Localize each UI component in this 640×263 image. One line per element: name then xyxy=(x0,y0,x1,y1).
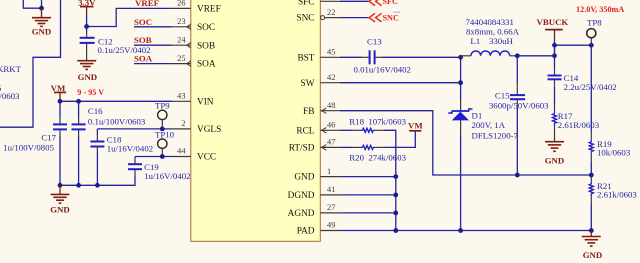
capacitor C14 xyxy=(548,45,562,103)
svg-text:SOA: SOA xyxy=(134,54,153,64)
wire 3.3V stem to junction xyxy=(86,16,88,27)
svg-text:D1: D1 xyxy=(472,110,483,120)
svg-text:C17: C17 xyxy=(41,133,56,143)
junction C17/GND xyxy=(58,183,63,188)
power port VM (left) xyxy=(51,83,67,101)
wire SNC stub xyxy=(340,17,369,19)
junction TP9 on VGLS xyxy=(160,126,165,131)
svg-text:TP9: TP9 xyxy=(155,100,170,110)
pin SFC 4 (right, cut at top) xyxy=(298,0,340,7)
svg-text:VREF: VREF xyxy=(135,0,159,8)
junction TP8 xyxy=(589,43,594,48)
svg-text:12.0V, 350mA: 12.0V, 350mA xyxy=(576,5,624,14)
svg-text:VIN: VIN xyxy=(197,97,214,107)
pin BST 45 (right) xyxy=(297,48,339,64)
svg-text:R18 107k/0603: R18 107k/0603 xyxy=(349,117,406,127)
wire SOB stub xyxy=(134,44,172,46)
junction D1 anode xyxy=(458,228,463,233)
junction R19/R21 xyxy=(589,173,594,178)
svg-text:VBUCK: VBUCK xyxy=(537,17,569,27)
svg-text:47: 47 xyxy=(327,138,335,147)
pin SOC 23 (left) xyxy=(172,17,216,33)
svg-text:BST: BST xyxy=(297,53,314,63)
ground GND under cap bank xyxy=(50,185,70,214)
ground GND under C12 xyxy=(77,61,97,82)
svg-text:GND: GND xyxy=(78,72,98,82)
svg-text:2.2u/25V/0402: 2.2u/25V/0402 xyxy=(564,82,617,92)
resistor R19 xyxy=(589,132,593,175)
svg-text:25: 25 xyxy=(177,54,185,63)
svg-text:44: 44 xyxy=(177,147,186,156)
junction VBUCK column xyxy=(552,53,557,58)
svg-text:FB: FB xyxy=(303,107,314,117)
svg-text:SNC: SNC xyxy=(296,14,314,24)
capacitor C15 xyxy=(510,56,525,175)
junction R21 bottom xyxy=(589,228,594,233)
svg-text:RCL: RCL xyxy=(296,126,314,136)
svg-text:C13: C13 xyxy=(367,37,382,47)
junction C15 top xyxy=(515,53,520,58)
svg-text:SW: SW xyxy=(301,79,315,89)
svg-text:SFC: SFC xyxy=(298,0,315,7)
junction TP10 on VCC xyxy=(160,154,165,159)
junction DGND/bus xyxy=(393,193,398,198)
wire R18 to GND bus xyxy=(384,130,396,176)
port SFC (cut at top) xyxy=(369,0,398,6)
svg-text:VM: VM xyxy=(408,120,423,130)
svg-text:DFLS1200-7: DFLS1200-7 xyxy=(472,131,519,141)
capacitor C18 xyxy=(90,129,104,185)
junction PAD/bus xyxy=(393,228,398,233)
pin SNC 22 (right) xyxy=(296,8,339,24)
svg-text:SOA: SOA xyxy=(197,60,216,70)
svg-text:48: 48 xyxy=(327,101,335,110)
test point TP9 xyxy=(155,100,170,129)
svg-text:KRKT: KRKT xyxy=(0,64,22,74)
svg-text:3600p/50V/0603: 3600p/50V/0603 xyxy=(489,100,549,110)
svg-text:SFC: SFC xyxy=(383,0,399,6)
pin SOB 24 (left) xyxy=(172,35,216,51)
junction AGND/bus xyxy=(393,211,398,216)
svg-text:49: 49 xyxy=(327,221,335,230)
junction top-left xyxy=(39,6,44,11)
svg-text:1u/100V/0805: 1u/100V/0805 xyxy=(3,143,54,153)
wire SW pin to node xyxy=(340,82,461,84)
svg-text:RT/SD: RT/SD xyxy=(289,144,315,154)
svg-text:74404084331: 74404084331 xyxy=(466,17,514,27)
wire C13 to SW node column xyxy=(375,56,382,58)
svg-text:GND: GND xyxy=(583,250,603,260)
wire L1 to VBUCK column xyxy=(517,55,554,57)
pin GND 1 (right) xyxy=(294,167,339,183)
ground GND under R17 xyxy=(545,142,565,166)
svg-text:42: 42 xyxy=(327,73,335,82)
junction VM/C17 xyxy=(58,99,63,104)
IC body xyxy=(191,0,320,241)
test point TP8 xyxy=(587,17,603,45)
wire PAD row to bottom GND xyxy=(340,230,592,232)
svg-text:0.1u/100V/0603: 0.1u/100V/0603 xyxy=(88,116,146,126)
pin VGLS 2 (left) xyxy=(172,119,222,135)
wire SFC stub xyxy=(340,0,369,2)
junction C16 xyxy=(76,99,81,104)
svg-text:DGND: DGND xyxy=(288,191,315,201)
svg-text:23: 23 xyxy=(177,17,185,26)
svg-text:46: 46 xyxy=(327,121,335,130)
pin RT/SD 47 (right) xyxy=(289,138,340,154)
svg-text:VCC: VCC xyxy=(197,153,216,163)
wire SOA stub xyxy=(134,63,172,65)
svg-text:24: 24 xyxy=(177,35,186,44)
svg-text:VM: VM xyxy=(51,83,66,93)
svg-text:R20 274k/0603: R20 274k/0603 xyxy=(349,152,406,162)
wire VGLS row xyxy=(97,128,171,130)
svg-text:10k/0603: 10k/0603 xyxy=(597,147,631,157)
svg-text:VGLS: VGLS xyxy=(197,125,221,135)
pin SW 42 (right) xyxy=(301,73,340,89)
svg-text:SOB: SOB xyxy=(197,41,215,51)
svg-text:SOC: SOC xyxy=(134,17,152,27)
junction GND pin/bus xyxy=(393,174,398,179)
pin PAD 49 (right) xyxy=(297,221,340,237)
svg-text:TP10: TP10 xyxy=(155,130,175,140)
resistor R18 xyxy=(353,128,384,132)
wire GND bus vertical xyxy=(395,177,397,231)
svg-text:43: 43 xyxy=(177,92,185,101)
svg-text:GND: GND xyxy=(32,27,52,37)
svg-text:AGND: AGND xyxy=(288,209,315,219)
svg-text:2: 2 xyxy=(181,119,185,128)
capacitor C12 xyxy=(80,27,95,61)
svg-text:1u/16V/0402: 1u/16V/0402 xyxy=(144,171,190,181)
svg-text:PAD: PAD xyxy=(297,227,315,237)
svg-text:1: 1 xyxy=(327,167,331,176)
diode D1 (schottky DFLS1200-7) xyxy=(448,101,472,231)
wire GND pin row xyxy=(340,176,396,178)
svg-text:0.01u/16V/0402: 0.01u/16V/0402 xyxy=(354,64,411,74)
junction 3.3V node xyxy=(84,24,89,29)
wire DGND row xyxy=(340,194,396,196)
pin DGND 41 (right) xyxy=(288,185,340,201)
pin VCC 44 (left) xyxy=(172,147,217,163)
power port VBUCK xyxy=(537,17,569,40)
wire AGND row xyxy=(340,212,396,214)
wire SOC stub xyxy=(134,26,172,28)
svg-text:SNC: SNC xyxy=(383,14,399,23)
wire RCL to R18 xyxy=(340,129,353,131)
junction C18/GND row xyxy=(95,183,100,188)
power port 3.3V xyxy=(78,0,96,16)
svg-text:41: 41 xyxy=(327,185,335,194)
svg-text:8x8mm, 0.66A: 8x8mm, 0.66A xyxy=(466,27,520,37)
svg-text:9 - 95 V: 9 - 95 V xyxy=(77,88,104,97)
svg-text:L1 330uH: L1 330uH xyxy=(470,36,513,46)
wire R20 to VM xyxy=(384,132,416,148)
junction SW/BST xyxy=(458,55,463,60)
svg-text:45: 45 xyxy=(327,48,335,57)
ground GND bottom right xyxy=(582,231,602,260)
svg-text:26: 26 xyxy=(177,0,185,8)
capacitor C17 xyxy=(53,101,67,185)
svg-text:C15: C15 xyxy=(495,90,510,100)
svg-text:SOB: SOB xyxy=(134,35,152,45)
wire top-left to GND junction xyxy=(23,0,41,8)
svg-text:C16: C16 xyxy=(88,106,103,116)
wire FB pin to divider node xyxy=(340,111,518,175)
junction VBUCK row xyxy=(552,43,557,48)
pin VREF 26 (left) xyxy=(172,0,221,14)
svg-text:GND: GND xyxy=(50,204,70,214)
junction SW row xyxy=(458,80,463,85)
power port VM (right) xyxy=(408,120,423,131)
port SNC with overbar xyxy=(369,12,400,22)
svg-text:1u/16V/0402: 1u/16V/0402 xyxy=(107,143,153,153)
pin AGND 27 (right) xyxy=(288,203,340,219)
svg-text:2.61R/0603: 2.61R/0603 xyxy=(558,120,600,130)
resistor R21 xyxy=(589,175,593,231)
wire VIN row xyxy=(60,100,172,102)
svg-text:27: 27 xyxy=(327,203,335,212)
junction C16/GND row xyxy=(76,183,81,188)
wire TP8/R19 column xyxy=(590,45,592,132)
pin FB 48 (right) xyxy=(303,101,340,117)
pin SOA 25 (left) xyxy=(172,54,216,70)
svg-text:GND: GND xyxy=(294,173,314,183)
wire SW node vertical xyxy=(460,57,462,101)
wire BST to C13 xyxy=(340,56,362,58)
resistor R20 xyxy=(353,145,384,149)
svg-text:k/0603: k/0603 xyxy=(0,91,20,101)
svg-text:22: 22 xyxy=(327,8,335,17)
svg-text:2.61k/0603: 2.61k/0603 xyxy=(597,189,637,199)
wire VBUCK stem xyxy=(554,40,556,56)
wire 3.3V node to VREF pin (jog) xyxy=(87,8,172,26)
capacitor C19 xyxy=(97,157,142,186)
pin VIN 43 (left) xyxy=(172,92,214,108)
wire VCC row xyxy=(135,156,172,158)
svg-text:VREF: VREF xyxy=(197,5,221,15)
test point TP10 xyxy=(155,130,175,157)
svg-text:SOC: SOC xyxy=(197,23,215,33)
svg-text:GND: GND xyxy=(545,156,565,166)
pin RCL 46 (right) xyxy=(296,121,339,137)
inductor L1 xyxy=(461,51,518,56)
wire GND row under caps xyxy=(60,184,97,186)
capacitor C13 xyxy=(370,50,375,64)
wire VBUCK row to TP8 xyxy=(555,44,592,46)
ground GND top-left xyxy=(32,8,52,36)
wire long L from top edge to left edge xyxy=(0,0,61,127)
svg-text:TP8: TP8 xyxy=(587,17,602,27)
junction C15 bottom xyxy=(515,173,520,178)
svg-text:200V, 1A: 200V, 1A xyxy=(472,120,506,130)
wire FB node row xyxy=(517,174,591,176)
capacitor C16 xyxy=(72,101,86,185)
wire RT/SD to R20 xyxy=(340,146,353,148)
resistor R17 xyxy=(553,104,557,142)
